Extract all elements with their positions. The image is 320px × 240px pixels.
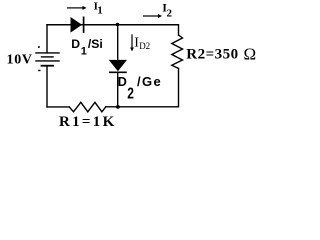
svg-text:D: D — [71, 37, 80, 51]
svg-text:D: D — [118, 75, 127, 89]
svg-text:D2: D2 — [139, 41, 150, 51]
svg-text:/Ge: /Ge — [137, 74, 162, 89]
svg-text:10V: 10V — [7, 53, 33, 68]
svg-text:R2=350: R2=350 — [186, 47, 238, 63]
svg-text:Ω: Ω — [244, 44, 257, 63]
svg-text:2: 2 — [167, 7, 173, 19]
svg-text:1: 1 — [81, 46, 87, 58]
svg-text:2: 2 — [127, 84, 134, 102]
svg-text:R1=1K: R1=1K — [59, 114, 117, 130]
svg-text:1: 1 — [97, 5, 103, 17]
svg-text:/Si: /Si — [88, 37, 103, 51]
